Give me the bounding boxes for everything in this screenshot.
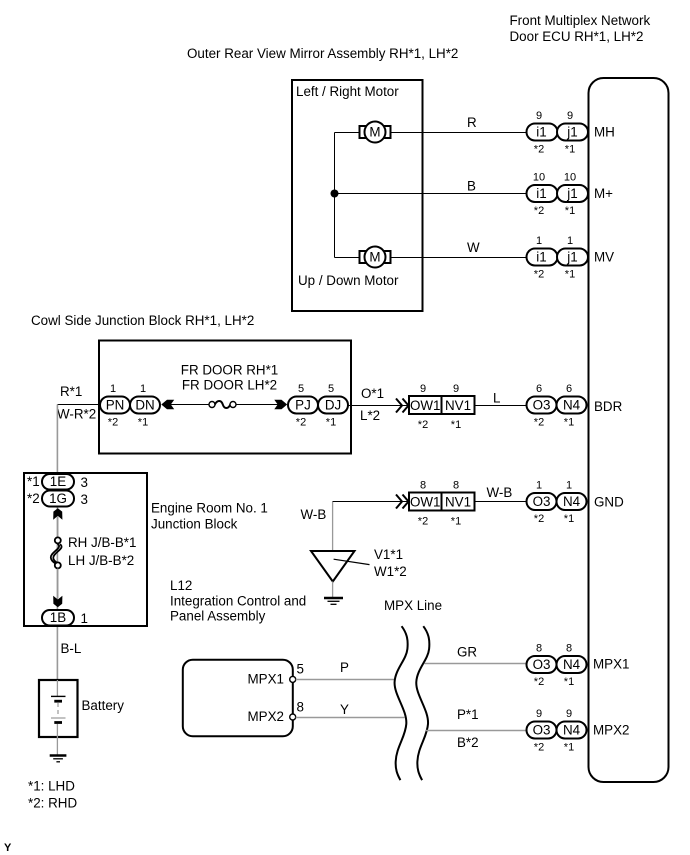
connector i1 pin 10 (M+ row) (527, 172, 558, 218)
svg-text:10: 10 (564, 172, 576, 184)
svg-text:9: 9 (420, 383, 426, 395)
wire triangle to ground (332, 582, 334, 598)
connector 1B pin 1 (42, 610, 88, 626)
svg-text:*2: *2 (418, 516, 428, 528)
wire W-B horizontal to chevrons (333, 501, 409, 503)
wire R (391, 132, 527, 134)
wire B (335, 193, 527, 195)
svg-text:1B: 1B (50, 610, 66, 625)
ground below battery (50, 756, 67, 762)
svg-text:M: M (369, 125, 380, 140)
svg-text:*2: *2 (534, 144, 544, 156)
svg-text:6: 6 (566, 383, 572, 395)
svg-text:PJ: PJ (295, 398, 311, 413)
svg-text:M: M (369, 250, 380, 265)
svg-text:*1: *1 (27, 474, 40, 489)
svg-text:L*2: L*2 (360, 408, 380, 423)
motor M2 Up/Down (360, 247, 391, 268)
svg-text:V1*1: V1*1 (374, 547, 403, 562)
svg-text:MPX2: MPX2 (593, 723, 629, 738)
svg-text:Cowl Side Junction Block RH*1,: Cowl Side Junction Block RH*1, LH*2 (31, 313, 254, 328)
cowl side junction block box (99, 341, 351, 454)
wire to PN from left (57, 404, 100, 406)
svg-text:O3: O3 (533, 723, 551, 738)
svg-text:*2: *2 (534, 676, 544, 688)
svg-text:*2: *2 (296, 417, 306, 429)
mirror assembly box (292, 80, 423, 311)
svg-text:MPX Line: MPX Line (384, 598, 442, 613)
svg-text:Integration Control and: Integration Control and (170, 594, 306, 609)
svg-text:O3: O3 (533, 657, 551, 672)
svg-text:N4: N4 (563, 723, 581, 738)
wire squiggle (twisted pair) (215, 401, 231, 408)
wire W-B vertical from noise filter (332, 502, 334, 552)
svg-text:1G: 1G (49, 491, 67, 506)
svg-text:*1: *1 (565, 269, 575, 281)
wire motor MV left (335, 257, 361, 259)
chevrons BDR row (396, 399, 409, 413)
connector i1 pin 9 (MH row) (527, 110, 558, 156)
connector j1 pin 1 (MV row) (557, 235, 588, 281)
svg-text:RH J/B-B*1: RH J/B-B*1 (68, 535, 136, 550)
svg-text:*2: *2 (534, 742, 544, 754)
connector PJ pin 5 (288, 383, 318, 429)
battery cell symbol (51, 680, 66, 755)
svg-text:B: B (467, 179, 476, 194)
arrow into PJ (274, 400, 287, 409)
svg-text:9: 9 (536, 110, 542, 122)
svg-text:i1: i1 (536, 125, 546, 140)
svg-text:5: 5 (328, 383, 334, 395)
svg-text:9: 9 (536, 708, 542, 720)
svg-text:*1: *1 (565, 144, 575, 156)
connector O3 pin 9 (MPX2) (527, 708, 557, 754)
node junction dot (331, 190, 339, 198)
connector 1E pin 3 (27, 474, 88, 490)
wire P from MPX1 (296, 679, 395, 681)
svg-text:OW1: OW1 (410, 495, 441, 510)
label ECU title (510, 13, 651, 44)
svg-text:DJ: DJ (325, 398, 341, 413)
wire down inside engine block (57, 516, 59, 537)
svg-text:9: 9 (567, 110, 573, 122)
svg-text:9: 9 (453, 383, 459, 395)
svg-text:*2: *2 (534, 269, 544, 281)
svg-text:Up / Down Motor: Up / Down Motor (298, 273, 399, 288)
engine room junction block box (24, 473, 147, 626)
connector j1 pin 9 (MH row) (557, 110, 588, 156)
pin circle MPX1 (290, 676, 296, 682)
svg-text:P*1: P*1 (457, 707, 479, 722)
svg-text:Door ECU RH*1, LH*2: Door ECU RH*1, LH*2 (510, 29, 644, 44)
svg-text:MV: MV (594, 250, 614, 265)
wire squiggle RH/LH J/B (51, 544, 62, 566)
svg-text:W-B: W-B (301, 507, 327, 522)
svg-text:NV1: NV1 (445, 398, 471, 413)
svg-text:Junction Block: Junction Block (151, 517, 238, 532)
connector DJ pin 5 (318, 383, 348, 429)
MPX bus wavy line left (395, 626, 408, 780)
svg-text:MH: MH (594, 125, 615, 140)
svg-text:P: P (340, 660, 349, 675)
arrow down to 1B (53, 596, 62, 608)
wire twisted left segment (171, 404, 210, 406)
connector j1 pin 10 (M+ row) (557, 172, 588, 218)
MPX bus wavy line right (416, 626, 429, 780)
svg-text:9: 9 (566, 708, 572, 720)
connector NV1 pin 9 (442, 383, 475, 431)
svg-text:i1: i1 (536, 250, 546, 265)
svg-text:Front Multiplex Network: Front Multiplex Network (510, 13, 651, 28)
svg-text:5: 5 (298, 383, 304, 395)
svg-text:*2: *2 (534, 513, 544, 525)
svg-text:O3: O3 (533, 398, 551, 413)
svg-text:i1: i1 (536, 186, 546, 201)
svg-text:10: 10 (533, 172, 545, 184)
svg-text:*2: *2 (418, 419, 428, 431)
connector O3 pin 8 (MPX1) (527, 643, 557, 689)
wire P*1/B*2 to O3 (426, 730, 527, 732)
svg-text:FR DOOR RH*1: FR DOOR RH*1 (181, 363, 278, 378)
svg-text:8: 8 (536, 643, 542, 655)
svg-text:*1: *1 (564, 417, 574, 429)
wire internal vertical motor bus (334, 133, 336, 258)
connector O3 pin 6 (BDR) (527, 383, 557, 429)
svg-text:*2: *2 (534, 417, 544, 429)
wire W-B to O3 (475, 501, 527, 503)
svg-text:*1: *1 (326, 417, 336, 429)
svg-text:M+: M+ (594, 186, 613, 201)
node circle top of J/B squiggle (55, 537, 61, 543)
wire motor MH left (335, 132, 361, 134)
svg-text:1: 1 (110, 383, 116, 395)
wire vertical R*1/W-R*2 down to engine room block (56, 405, 58, 681)
svg-text:*2: *2 (534, 205, 544, 217)
svg-text:GR: GR (457, 645, 477, 660)
svg-text:PN: PN (106, 398, 125, 413)
svg-text:j1: j1 (566, 250, 577, 265)
connector 1G pin 3 (27, 491, 88, 508)
leader line to V1 label (334, 559, 370, 564)
svg-text:*2: *2 (27, 491, 40, 506)
svg-text:W1*2: W1*2 (374, 564, 407, 579)
wire twisted right segment (236, 404, 278, 406)
svg-text:5: 5 (297, 662, 304, 677)
battery box (39, 680, 78, 737)
node circle bottom of J/B squiggle (55, 562, 61, 568)
svg-text:FR DOOR LH*2: FR DOOR LH*2 (182, 378, 277, 393)
svg-text:N4: N4 (563, 657, 581, 672)
noise filter V1/W1 triangle (311, 551, 355, 582)
svg-text:1: 1 (536, 235, 542, 247)
svg-text:W-B: W-B (487, 485, 513, 500)
svg-text:8: 8 (297, 700, 304, 715)
wire W (391, 257, 527, 259)
svg-text:1: 1 (567, 235, 573, 247)
connector PN pin 1 (100, 383, 130, 429)
svg-text:BDR: BDR (594, 399, 623, 414)
svg-text:W: W (467, 240, 480, 255)
svg-text:W-R*2: W-R*2 (57, 407, 96, 422)
svg-text:LH J/B-B*2: LH J/B-B*2 (68, 553, 134, 568)
connector O3 pin 1 (GND) (527, 480, 557, 526)
svg-text:*1: LHD: *1: LHD (28, 779, 75, 794)
svg-text:MPX1: MPX1 (593, 657, 629, 672)
svg-text:*1: *1 (564, 676, 574, 688)
svg-text:1: 1 (140, 383, 146, 395)
chevrons GND row (396, 495, 409, 509)
svg-text:OW1: OW1 (410, 398, 441, 413)
svg-text:6: 6 (536, 383, 542, 395)
svg-text:N4: N4 (563, 494, 581, 509)
wire down to arrow (57, 569, 59, 599)
MPX integration panel box (183, 660, 293, 737)
svg-text:8: 8 (566, 643, 572, 655)
pin circle MPX2 (290, 714, 296, 720)
connector N4 pin 6 (BDR) (557, 383, 587, 429)
svg-text:B*2: B*2 (457, 735, 479, 750)
svg-text:8: 8 (453, 480, 459, 492)
svg-text:Panel Assembly: Panel Assembly (170, 609, 266, 624)
connector DN pin 1 (130, 383, 160, 429)
svg-text:*1: *1 (564, 513, 574, 525)
svg-text:GND: GND (594, 495, 624, 510)
svg-text:Y: Y (340, 702, 349, 717)
wire GR to O3 (425, 663, 527, 665)
svg-text:8: 8 (420, 480, 426, 492)
svg-text:R: R (467, 115, 477, 130)
svg-text:j1: j1 (566, 125, 577, 140)
svg-text:B-L: B-L (61, 641, 82, 656)
svg-text:*1: *1 (138, 417, 148, 429)
svg-text:1: 1 (566, 480, 572, 492)
connector OW1 pin 8 (409, 480, 442, 528)
arrow up to 1G (53, 508, 62, 520)
svg-text:Left / Right Motor: Left / Right Motor (296, 84, 399, 99)
svg-text:L12: L12 (170, 578, 192, 593)
svg-text:NV1: NV1 (445, 495, 471, 510)
motor M1 Left/Right (360, 122, 391, 143)
node circle right of squiggle (230, 402, 236, 408)
svg-text:*1: *1 (564, 742, 574, 754)
svg-text:*1: *1 (451, 516, 461, 528)
svg-text:Engine Room No. 1: Engine Room No. 1 (151, 501, 268, 516)
connector N4 pin 8 (MPX1) (557, 643, 587, 689)
svg-text:MPX1: MPX1 (248, 672, 284, 687)
svg-text:N4: N4 (563, 398, 581, 413)
svg-text:3: 3 (81, 492, 88, 507)
ECU U1: Front Multiplex Network Door ECU body (589, 78, 669, 782)
arrow into DN (161, 400, 174, 409)
connector OW1 pin 9 (409, 383, 442, 431)
svg-text:1: 1 (536, 480, 542, 492)
svg-text:Battery: Battery (82, 698, 125, 713)
connector N4 pin 1 (GND) (557, 480, 587, 526)
svg-text:Outer Rear View Mirror Assembl: Outer Rear View Mirror Assembly RH*1, LH… (187, 46, 458, 61)
svg-text:Y: Y (4, 842, 12, 854)
wire L to O3 (475, 405, 527, 407)
connector i1 pin 1 (MV row) (527, 235, 558, 281)
svg-text:*1: *1 (565, 205, 575, 217)
svg-text:1: 1 (81, 611, 88, 626)
svg-text:O3: O3 (533, 494, 551, 509)
ground below noise filter (324, 598, 343, 604)
svg-text:*2: *2 (108, 417, 118, 429)
svg-text:j1: j1 (566, 186, 577, 201)
wire Y from MPX2 (296, 717, 405, 719)
node circle left of squiggle (209, 402, 215, 408)
connector N4 pin 9 (MPX2) (557, 708, 587, 754)
svg-text:DN: DN (135, 398, 154, 413)
svg-text:MPX2: MPX2 (248, 709, 284, 724)
svg-text:*1: *1 (451, 419, 461, 431)
svg-text:3: 3 (81, 475, 88, 490)
svg-text:L: L (493, 391, 500, 406)
svg-text:1E: 1E (50, 474, 66, 489)
svg-text:R*1: R*1 (60, 384, 82, 399)
connector NV1 pin 8 (442, 480, 475, 528)
wire DJ to OW1 (348, 405, 409, 407)
svg-text:*2: RHD: *2: RHD (28, 796, 77, 811)
svg-text:O*1: O*1 (361, 386, 384, 401)
